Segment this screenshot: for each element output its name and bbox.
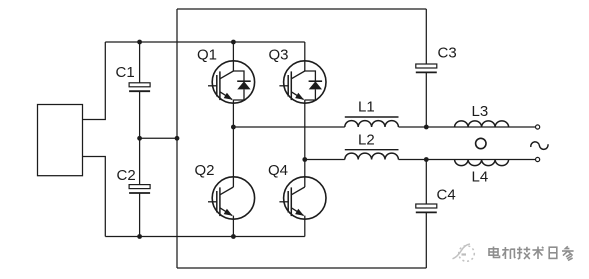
参: [562, 246, 574, 260]
wire: Q3 collector from top rail corner: [304, 42, 306, 61]
wire: Q1 collector to top rail: [232, 42, 234, 61]
output terminal line1: [536, 125, 540, 129]
node: C2 bottom on rail: [137, 234, 142, 239]
wire: Q2 collector to line1: [232, 127, 234, 177]
wire: bottom DC rail: [105, 236, 304, 238]
wire: outer loop top rail: [177, 8, 426, 10]
watermark logo icon: [453, 244, 475, 261]
svg-text:C2: C2: [117, 167, 136, 184]
capacitor C2: [139, 138, 141, 184]
transistor Q3: [279, 61, 326, 103]
AC sine symbol: [531, 142, 548, 150]
node: midpoint link on outer loop: [175, 136, 180, 141]
wire: C4 bottom to outer loop bottom: [425, 212, 427, 268]
inductor L4: [455, 160, 509, 166]
wire: line1 (phase A output): [233, 126, 344, 128]
node: Q2 emitter on rail: [231, 234, 236, 239]
inductor L1: [345, 121, 399, 127]
node: C1/C2 midpoint: [137, 136, 142, 141]
node O marker between L3 and L4: [476, 138, 486, 148]
node: C4 on line2: [424, 157, 429, 162]
watermark text 电机技术日参 (drawn glyphs): [489, 246, 574, 260]
日: [549, 247, 557, 258]
svg-text:Q1: Q1: [197, 47, 217, 64]
术: [532, 247, 543, 260]
wire: Q2 emitter to bottom rail: [232, 219, 234, 237]
svg-text:C3: C3: [438, 44, 457, 61]
capacitor C4: [416, 204, 437, 212]
wire: right branch C3 upper segment: [425, 9, 427, 64]
node: Q3/Q4 midpoint on line2: [302, 157, 307, 162]
wire: Q3 emitter to line2: [304, 103, 306, 160]
output terminal line2: [536, 157, 540, 161]
技: [517, 247, 530, 259]
svg-text:Q2: Q2: [195, 162, 215, 179]
svg-text:C1: C1: [116, 64, 135, 81]
svg-text:L2: L2: [358, 131, 375, 148]
wire: line1 after L1: [399, 126, 536, 128]
capacitor C1: [139, 42, 141, 83]
svg-text:L3: L3: [472, 103, 489, 120]
source block (left box): [38, 105, 83, 176]
wire: Q4 emitter to bottom rail: [304, 219, 306, 237]
capacitor C3: [416, 64, 437, 72]
wire: Q4 collector to line2: [304, 160, 306, 178]
电: [489, 247, 500, 258]
wire: line2 to C4 top: [425, 160, 427, 205]
wire: top DC rail: [105, 41, 304, 43]
wire: line2 after L2: [399, 159, 536, 161]
node: Q1 collector on rail: [231, 40, 236, 45]
wire: box bottom lead: [83, 157, 106, 237]
svg-text:Q4: Q4: [268, 162, 288, 179]
wire: C3 bottom to line1: [425, 72, 427, 127]
transistor Q4: [279, 177, 326, 219]
svg-text:L4: L4: [472, 168, 489, 185]
wire: line2 (phase B output): [305, 159, 345, 161]
node: C3 on line1: [424, 125, 429, 130]
svg-text:C4: C4: [437, 186, 456, 203]
wire: C1/C2 midpoint link to outer loop: [140, 137, 177, 139]
node: C1 top on rail: [137, 40, 142, 45]
svg-text:Q3: Q3: [269, 47, 289, 64]
inductor L2: [345, 153, 399, 159]
svg-text:L1: L1: [358, 99, 375, 116]
wire: outer loop bottom rail: [177, 267, 426, 269]
wire: outer loop left vertical: [176, 9, 178, 268]
inductor L3: [455, 121, 509, 127]
transistor Q2: [208, 177, 255, 219]
transistor Q1: [208, 61, 255, 103]
node: Q1/Q2 midpoint on line1: [231, 125, 236, 130]
机: [502, 247, 515, 259]
wire: Q1 emitter to line1: [232, 103, 234, 127]
wire: box top lead: [83, 42, 106, 120]
